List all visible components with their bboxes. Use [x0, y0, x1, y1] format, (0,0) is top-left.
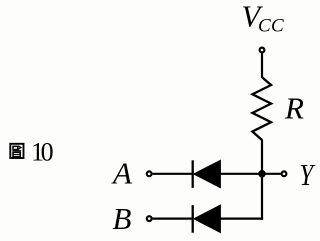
- figure caption glyph (CJK): [10, 144, 23, 158]
- svg-text:A: A: [111, 156, 133, 191]
- resistor R: [252, 77, 271, 140]
- svg-text:B: B: [113, 201, 132, 236]
- diode D1: [193, 160, 221, 188]
- terminal VCC: [260, 48, 265, 53]
- wire diode D2 to stem corner: [220, 218, 263, 220]
- terminal Y: [282, 171, 287, 176]
- svg-text:CC: CC: [258, 15, 284, 36]
- terminal B: [147, 216, 152, 221]
- wire VCC stem: [261, 53, 263, 78]
- junction node: [258, 170, 266, 178]
- diode D2: [193, 205, 221, 233]
- terminal A: [147, 171, 152, 176]
- wire B to diode D2: [153, 218, 193, 220]
- svg-text:R: R: [284, 91, 304, 126]
- svg-text:Y: Y: [299, 158, 316, 192]
- wire resistor to node Y and down to diode D2: [261, 140, 263, 220]
- svg-text:0: 0: [41, 138, 54, 167]
- wire A to diode D1: [153, 173, 193, 175]
- wire diode D1 to node Y: [220, 173, 280, 175]
